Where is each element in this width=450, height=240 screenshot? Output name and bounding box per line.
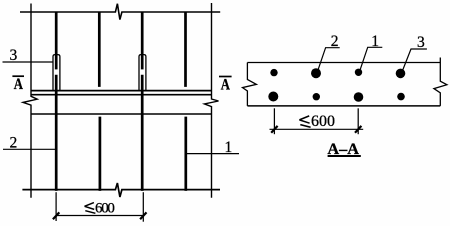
svg-text:600: 600	[311, 113, 335, 130]
svg-text:A: A	[221, 76, 231, 93]
dimension text less-equal symbol	[299, 116, 310, 127]
dimension arrow slash left	[53, 212, 59, 219]
svg-text:3: 3	[417, 34, 425, 51]
dimension extension line left	[273, 108, 275, 134]
dimension line	[56, 215, 144, 217]
wire left edge line with break	[23, 4, 37, 198]
svg-text:1: 1	[371, 33, 379, 50]
dimension line	[270, 128, 364, 130]
bar B2 lower segment	[99, 117, 102, 191]
title A-A underline	[328, 155, 361, 157]
wire right edge line with break	[204, 3, 218, 198]
label 2 underline and leader	[318, 48, 340, 71]
wire top chord line with break	[20, 4, 220, 20]
wire seam double line upper	[31, 90, 212, 92]
svg-text:A–A: A–A	[327, 139, 359, 158]
dimension extension line right	[142, 192, 144, 222]
label 2 leader	[3, 148, 56, 150]
dot row1 c3 small	[355, 69, 362, 76]
label 3 leader	[3, 61, 54, 63]
bar B4 lower segment	[184, 117, 187, 191]
sleeve S2 on bar B3	[139, 55, 146, 91]
svg-text:600: 600	[95, 200, 114, 216]
dimension arrow slash right	[140, 212, 146, 219]
dot row2 c3 big	[354, 92, 364, 102]
dot row1 c1 small	[270, 69, 277, 76]
bar B3 upper segment (through bolt, x=142)	[141, 12, 144, 69]
dot row1 c4 big	[396, 69, 406, 79]
label 1 leader	[186, 153, 240, 155]
wire strip bottom line	[247, 105, 440, 107]
wire lower panel top line	[31, 113, 212, 115]
svg-text:3: 3	[10, 47, 18, 64]
svg-text:2: 2	[10, 134, 18, 151]
dot row2 c4 small	[397, 93, 405, 101]
wire strip left broken edge	[243, 63, 257, 106]
svg-text:A: A	[14, 76, 24, 93]
bar B1 upper segment (through bolt, x=56)	[55, 12, 58, 69]
wire bottom chord line with break	[22, 183, 220, 197]
svg-text:2: 2	[331, 33, 339, 50]
label 3 underline and leader	[403, 49, 427, 70]
dimension text less-equal symbol	[85, 203, 96, 214]
wire strip right broken edge	[434, 58, 447, 106]
dot row1 c2 big	[311, 68, 321, 78]
dot row2 c2 small	[313, 93, 320, 100]
bar B2 upper segment (x=99)	[98, 12, 101, 87]
dot row2 c1 big	[268, 92, 278, 102]
svg-text:1: 1	[225, 139, 233, 156]
label 1 underline and leader	[360, 47, 382, 69]
section mark A right overline	[219, 76, 232, 78]
dimension arrow slash left	[271, 126, 277, 133]
bar B1 lower segment	[55, 75, 58, 191]
dimension extension line left	[55, 192, 57, 221]
wire strip top line	[247, 62, 440, 64]
section mark A left overline	[12, 75, 24, 77]
sleeve S1 on bar B1	[53, 55, 60, 91]
wire seam double line lower	[31, 94, 212, 96]
dimension extension line right	[357, 108, 359, 134]
bar B4 upper segment (x=185.5)	[184, 12, 187, 87]
bar B3 lower segment	[141, 75, 144, 191]
dimension arrow slash right	[355, 126, 361, 133]
